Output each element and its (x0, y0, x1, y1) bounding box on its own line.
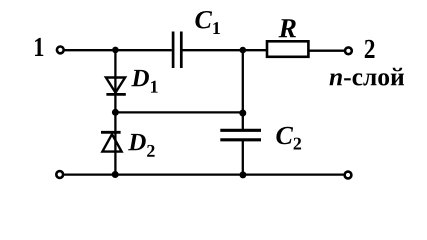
node top-left junction (112, 47, 119, 54)
wire right branch lower (C2 to bottom wire) (242, 141, 244, 175)
label D1 (131, 70, 157, 93)
label n-slot (n-слой) (330, 68, 405, 86)
node middle-right junction (239, 110, 246, 117)
terminal bottom-left (56, 171, 63, 178)
wire bottom (64, 173, 344, 175)
label R (279, 19, 296, 37)
wire left branch vertical (through D1 and D2) (114, 50, 116, 174)
diode D1 (106, 78, 126, 95)
wire top-middle (C1 to R) (182, 49, 266, 51)
capacitor C2 (220, 130, 261, 140)
node bottom-right junction (239, 171, 246, 178)
label 2 (365, 40, 375, 58)
label D2 (128, 134, 154, 157)
wire top-left (terminal 1 to C1) (64, 49, 172, 51)
terminal 2 (345, 47, 352, 54)
node top-right junction (240, 47, 247, 54)
label C2 (276, 127, 301, 150)
node bottom-left junction (112, 171, 119, 178)
resistor R (267, 41, 308, 57)
wire middle horizontal (diode node to C2 branch) (115, 111, 242, 113)
wire top-right (R to terminal 2) (309, 50, 345, 52)
node middle-left junction (112, 109, 119, 116)
terminal bottom-right (345, 172, 352, 179)
diode D2 (101, 132, 122, 151)
capacitor C1 (173, 32, 181, 69)
terminal 1 (57, 47, 64, 54)
wire right branch upper (top node to C2) (242, 50, 244, 129)
label C1 (195, 11, 220, 34)
label 1 (35, 38, 43, 56)
